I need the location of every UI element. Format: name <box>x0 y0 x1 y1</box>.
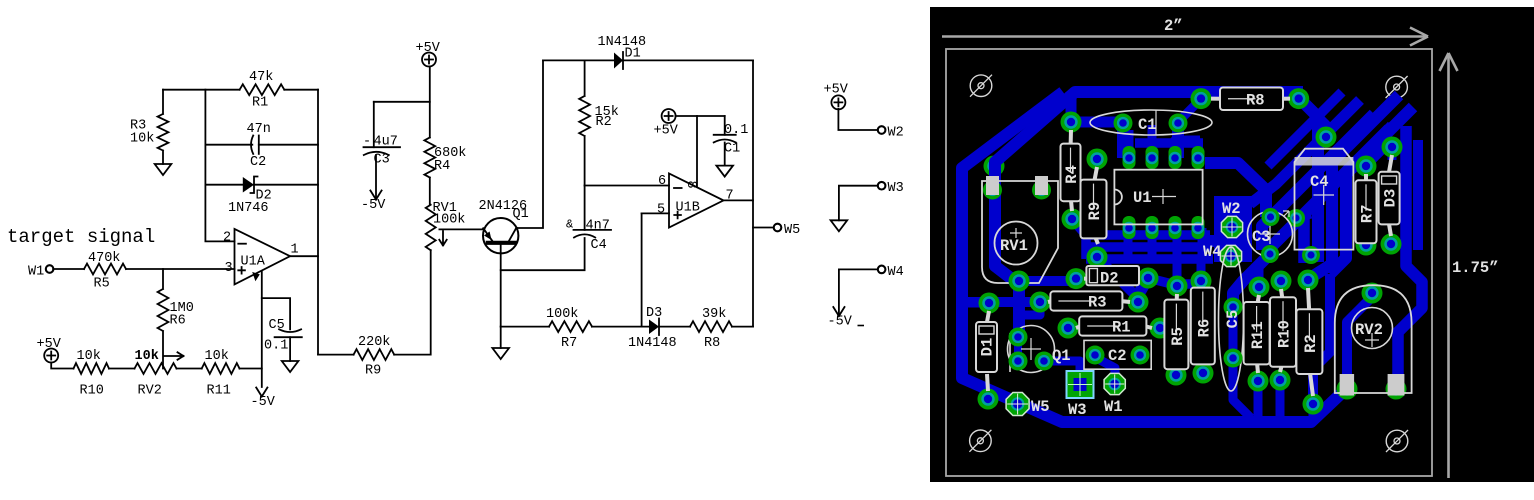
pad R9 top <box>1087 149 1108 170</box>
wire +5V to R10 <box>51 363 73 369</box>
trace R3 left to edge <box>962 297 1040 307</box>
ground below W3 <box>831 220 848 231</box>
IC U1 body outline <box>1114 170 1202 225</box>
svg-text:W1: W1 <box>28 265 44 280</box>
trace W3 up <box>1044 361 1080 386</box>
pad R3 right <box>1128 292 1149 313</box>
pad C1 left <box>1114 114 1133 133</box>
svg-text:target signal: target signal <box>7 226 155 248</box>
svg-text:10k: 10k <box>130 132 154 147</box>
pad RV1 right <box>1032 181 1051 200</box>
vertical dimension line 1.75 inch <box>1440 53 1499 478</box>
pad Q1 b <box>1009 352 1028 371</box>
svg-text:R4: R4 <box>434 159 450 174</box>
capacitor C2 47n <box>251 136 259 154</box>
trace diag under C4 strip2 <box>1310 95 1399 278</box>
wire R5 to pin3 <box>126 268 235 270</box>
pad C2 right <box>1131 346 1150 365</box>
trace R4 bottom to serpentine <box>1071 218 1086 235</box>
terminal W1 <box>28 265 53 280</box>
resistor R7 100k <box>549 321 592 332</box>
trace R11 bottom stub <box>1254 381 1263 418</box>
RV2 wiper arrow <box>164 352 184 359</box>
terminal pad W2 <box>1221 216 1242 237</box>
wire R1 top net <box>163 89 240 91</box>
svg-text:D2: D2 <box>1100 270 1119 288</box>
wire D1 to right bus <box>623 59 753 61</box>
trace C4 pads link <box>1296 214 1311 218</box>
+5V supply top <box>416 41 441 67</box>
pad D2 right <box>1138 268 1159 289</box>
pad R1 right <box>1150 318 1171 339</box>
svg-text:39k: 39k <box>702 307 726 322</box>
trace D2 right to R6 top <box>1148 278 1201 284</box>
resistor R11 10k <box>202 363 240 374</box>
wire Q1 emitter up <box>517 60 544 228</box>
PCB black background panel <box>930 7 1534 482</box>
board outline <box>946 49 1432 476</box>
wire W1 to R5 <box>53 268 84 270</box>
trace left of RV2 strip <box>1313 274 1330 404</box>
svg-text:R3: R3 <box>1088 294 1107 312</box>
resistor R7 body <box>1356 174 1377 243</box>
-5V arrow below W4 <box>833 307 844 316</box>
svg-text:D1: D1 <box>625 47 641 62</box>
potentiometer RV1 100k <box>426 205 436 251</box>
trace C5 bottom to band <box>1233 358 1251 418</box>
pad R11 bottom <box>1248 371 1269 392</box>
wire top net to D1 <box>543 59 614 61</box>
wire C3 branch <box>374 101 430 103</box>
op-amp U1B <box>657 174 734 228</box>
svg-text:+5V: +5V <box>37 337 62 352</box>
wire Q1 base stem <box>500 245 502 327</box>
op-amp U1A <box>223 229 299 285</box>
trace W1 up <box>1100 360 1115 384</box>
pad RV2 right <box>1386 379 1407 400</box>
svg-text:10k: 10k <box>205 349 229 364</box>
svg-text:R1: R1 <box>1112 319 1131 337</box>
wire U1B output pin7 <box>724 199 754 201</box>
svg-text:10k: 10k <box>135 349 159 364</box>
svg-text:2: 2 <box>223 231 231 246</box>
wire U1B pin5 <box>642 212 669 214</box>
terminal pad W3 <box>1067 371 1094 398</box>
trace RV1 pad down to Q1 <box>1013 283 1025 337</box>
mounting hole bottom-left <box>969 430 991 452</box>
pad C1 right <box>1169 114 1188 133</box>
mounting hole bottom-right <box>1386 430 1408 452</box>
wire right output bus <box>752 60 754 326</box>
resistor R4 body <box>1061 130 1082 211</box>
+5V supply bottom-left <box>37 337 62 363</box>
pad D2 left <box>1066 268 1087 289</box>
trace Q1 pads link <box>1014 337 1022 361</box>
U1A V- power pin arrow <box>252 272 260 281</box>
resistor R8 39k <box>690 321 732 332</box>
svg-text:C5: C5 <box>269 318 285 333</box>
pad R2 top <box>1298 270 1319 291</box>
wire U1A V- bus <box>261 271 263 387</box>
resistor R8 body <box>1211 88 1290 111</box>
trace R7 top stub <box>1366 144 1388 166</box>
trace diag to W4 region <box>1270 129 1389 248</box>
RV2 square pad left <box>1340 374 1355 396</box>
svg-text:Q1: Q1 <box>1052 347 1071 365</box>
ground at R7 node <box>492 348 509 359</box>
wire pin6 net <box>585 185 669 187</box>
svg-text:R6: R6 <box>170 314 186 329</box>
pad R6 top <box>1191 271 1212 292</box>
via C4 left <box>1287 209 1305 227</box>
resistor R6 1M0 <box>158 269 169 369</box>
wire R1 right lead <box>284 89 318 91</box>
trimmer RV2 body <box>1335 285 1412 393</box>
svg-text:+5V: +5V <box>416 41 441 56</box>
wire left bus to pin2 <box>205 90 234 242</box>
svg-text:R8: R8 <box>704 336 720 351</box>
wire right feedback bus <box>317 90 319 355</box>
svg-text:100k: 100k <box>546 307 578 322</box>
svg-text:D3: D3 <box>646 306 662 321</box>
pad R10 top <box>1271 271 1292 292</box>
wire U1B pin8 stem <box>696 116 698 187</box>
svg-text:R9: R9 <box>1086 202 1104 221</box>
trimmer RV1 body <box>982 181 1058 283</box>
ground below C5 <box>282 361 299 372</box>
svg-text:R2: R2 <box>596 115 612 130</box>
svg-text:1.75”: 1.75” <box>1452 259 1499 277</box>
trace C4 strip4 <box>1304 126 1392 263</box>
wire D2 right lead <box>254 184 318 186</box>
pad R11 top <box>1249 277 1270 298</box>
trace diag 6 <box>1268 92 1342 166</box>
pad R8 right <box>1288 88 1309 109</box>
pad RV1 wiper <box>1009 271 1030 292</box>
trace U1 right band to W2 <box>1205 163 1266 217</box>
svg-text:RV1: RV1 <box>1000 237 1028 255</box>
wire bus to R9 <box>318 354 354 356</box>
svg-text:W2: W2 <box>1222 200 1241 218</box>
svg-text:D1: D1 <box>979 338 997 357</box>
pad RV1 left <box>983 181 1002 200</box>
zener diode D2 1N746 <box>243 177 258 194</box>
svg-text:-: - <box>363 135 371 150</box>
wire W3 to ground <box>839 186 877 221</box>
wire C3 to -5V <box>375 155 377 200</box>
svg-text:R10: R10 <box>1276 320 1294 348</box>
trace right edge vertical <box>1398 126 1422 389</box>
pad R1 left <box>1058 318 1079 339</box>
mounting hole top-right <box>1386 76 1408 98</box>
trace R10 bottom stub <box>1276 381 1285 418</box>
horizontal dimension line 2 inch <box>942 17 1428 46</box>
pad D1 top <box>979 293 1000 314</box>
svg-text:C2: C2 <box>250 155 266 170</box>
wire to W5 <box>753 227 774 229</box>
wire R10 to RV2 <box>109 368 135 370</box>
resistor R9 220k <box>354 349 395 360</box>
svg-text:R7: R7 <box>1359 204 1377 223</box>
svg-text:R6: R6 <box>1195 319 1213 338</box>
svg-text:2”: 2” <box>1164 17 1183 35</box>
svg-text:+5V: +5V <box>824 83 849 98</box>
svg-text:R4: R4 <box>1063 165 1081 184</box>
svg-text:+5V: +5V <box>654 124 679 139</box>
trace U1 pads stubs down <box>1128 228 1202 260</box>
ground below C1 <box>716 166 733 177</box>
svg-text:RV2: RV2 <box>1355 321 1383 339</box>
trace diag under C4 strip3 <box>1330 107 1413 274</box>
trace Q1 links <box>1018 303 1040 337</box>
trace U1 serpentine row1 <box>1086 230 1210 240</box>
stray mark near -5V <box>858 325 865 327</box>
capacitor C3 outline <box>1248 211 1293 257</box>
pad R10 bottom <box>1270 370 1291 391</box>
svg-text:U1B: U1B <box>676 201 700 216</box>
pad R6 bottom <box>1193 363 1214 384</box>
svg-text:R5: R5 <box>1169 327 1187 346</box>
trace U1 top stubs <box>1129 125 1200 155</box>
trace C1 left stub <box>1117 123 1129 158</box>
pad RV2 left <box>1337 379 1358 400</box>
trace W2 W4 column <box>1226 227 1238 256</box>
resistor R4 680k <box>424 138 435 178</box>
wire C1 to ground <box>724 143 726 166</box>
resistor R2 15k <box>579 60 590 185</box>
trace C5 pads strip <box>1229 307 1238 358</box>
pad D3 bottom <box>1381 234 1402 255</box>
wire RV1 wiper to Q1 <box>439 228 483 230</box>
diode D3 body <box>1379 155 1400 236</box>
wire R4 to RV1 <box>429 178 431 205</box>
terminal pad W1 <box>1104 373 1125 394</box>
schematic panel <box>0 0 930 500</box>
capacitor C5 outline <box>1219 247 1244 391</box>
copper pour near W2 W4 <box>1214 196 1252 262</box>
svg-text:R10: R10 <box>80 384 104 399</box>
terminal W5 <box>774 223 801 238</box>
svg-text:W3: W3 <box>1068 401 1087 419</box>
svg-text:5: 5 <box>657 203 665 218</box>
pad R5 top <box>1167 276 1188 297</box>
svg-text:1N746: 1N746 <box>228 201 269 216</box>
capacitor C3 4u7 <box>364 147 401 155</box>
resistor R11 body <box>1244 295 1270 373</box>
wire C5 branch <box>262 298 290 329</box>
-5V arrow below U1A <box>256 388 267 397</box>
trace R9 bottom to R3 right <box>1097 257 1138 298</box>
trace C3 to C5 <box>1233 254 1270 307</box>
pad C5 top <box>1224 298 1243 317</box>
resistor R10 10k <box>74 363 110 374</box>
ground below R3 <box>155 164 172 175</box>
IC U1 pads top row <box>1123 146 1136 169</box>
pad R7 top <box>1356 156 1377 177</box>
terminal W4 <box>878 265 904 280</box>
svg-text:U1A: U1A <box>241 255 266 270</box>
svg-text:-5V: -5V <box>828 315 853 330</box>
svg-text:220k: 220k <box>358 335 390 350</box>
pad R4 bottom <box>1062 209 1083 230</box>
pad R7 bottom <box>1356 235 1377 256</box>
trace R8 right under C4 strip1 <box>1299 98 1318 262</box>
RV2 square pad right <box>1388 374 1405 396</box>
pad RV2 top <box>1362 283 1383 304</box>
svg-text:R11: R11 <box>207 384 231 399</box>
trace C1 right stub <box>1172 123 1184 158</box>
pad C4 top <box>1316 127 1337 148</box>
wire C5 to ground <box>289 337 291 361</box>
svg-text:W2: W2 <box>888 126 904 141</box>
trace diag 5 <box>1250 100 1360 204</box>
trace outer left-bottom ring <box>962 92 1348 422</box>
wire +5V to W2 <box>838 109 877 130</box>
pad Q1 e <box>1009 328 1028 347</box>
wire C2 right lead <box>259 144 318 146</box>
svg-text:&: & <box>566 218 573 232</box>
wire C3 stem <box>373 102 375 147</box>
mounting hole top-left <box>970 75 992 97</box>
svg-text:C5: C5 <box>1224 310 1242 329</box>
trace U1 serpentine row2 <box>1086 242 1210 252</box>
potentiometer RV2 10k <box>135 363 177 374</box>
svg-text:-5V: -5V <box>251 395 276 410</box>
trace R5 R6 top stubs <box>1177 262 1201 286</box>
pad D1 bottom <box>978 389 999 410</box>
trace serpentine left link <box>1081 235 1091 259</box>
wire R7 to D3 node <box>592 326 649 328</box>
terminal W2 <box>878 126 904 141</box>
svg-text:R11: R11 <box>1249 321 1267 349</box>
pad R4 top <box>1061 112 1082 133</box>
resistor R2 body <box>1296 288 1322 396</box>
capacitor C4 body <box>1295 149 1354 250</box>
wire Q1 to C4 bottom <box>501 238 585 270</box>
trace R2 bottom stub <box>1309 404 1318 420</box>
pad Q1 c <box>1035 352 1054 371</box>
wire C2 left lead <box>205 144 252 146</box>
resistor R5 470k <box>84 264 126 275</box>
wire W4 to -5V <box>839 269 877 316</box>
svg-text:W1: W1 <box>1104 398 1123 416</box>
wire R8 to bus <box>732 326 753 328</box>
svg-text:0.1: 0.1 <box>264 339 288 354</box>
trace D2 right to R3 right <box>1138 278 1148 295</box>
svg-text:Q1: Q1 <box>513 207 529 222</box>
wire pin5 down <box>641 213 643 326</box>
trace R4 top to C1 left <box>1071 117 1123 128</box>
wire +5V to C1 <box>676 115 725 117</box>
transistor Q1 2N4126 <box>483 218 518 253</box>
svg-text:W4: W4 <box>1203 243 1222 261</box>
RV1 square pad left <box>986 176 999 195</box>
svg-text:1N4148: 1N4148 <box>628 336 677 351</box>
wire C1 stem <box>724 116 726 135</box>
resistor R1 47k <box>240 84 285 95</box>
resistor R9 body <box>1081 167 1107 244</box>
svg-text:C3: C3 <box>1252 228 1271 246</box>
svg-text:C1: C1 <box>1138 116 1157 134</box>
capacitor C1 0.1 <box>714 135 736 143</box>
trace diag to C3 region <box>1262 114 1374 250</box>
svg-text:W3: W3 <box>888 181 904 196</box>
resistor R5 body <box>1164 294 1188 369</box>
transistor Q1 outline <box>1008 326 1055 373</box>
trace serpentine right link <box>1205 235 1215 247</box>
trace R8 left to C1 <box>1181 99 1201 119</box>
trace U1 serpentine row3 <box>1086 254 1213 264</box>
svg-text:-5V: -5V <box>361 198 386 213</box>
svg-text:C4: C4 <box>1310 173 1329 191</box>
svg-text:C4: C4 <box>591 238 607 253</box>
wire RV2 to R11 <box>177 368 202 370</box>
diode D2 body <box>1084 266 1140 288</box>
+5V supply right column <box>824 83 849 110</box>
svg-text:C2: C2 <box>1108 347 1127 365</box>
terminal pad W4 <box>1220 245 1241 266</box>
svg-text:U1: U1 <box>1133 189 1152 207</box>
resistor R1 body <box>1076 316 1152 336</box>
terminal W3 <box>878 181 904 196</box>
svg-text:1: 1 <box>291 243 299 258</box>
svg-text:47n: 47n <box>247 122 271 137</box>
pad R8 left <box>1191 88 1212 109</box>
trace D1 top link <box>967 299 989 308</box>
diode D1 1N4148 <box>614 52 623 69</box>
pad D3 top <box>1382 137 1403 158</box>
via top-left corner <box>984 156 1005 177</box>
trace C1 underband <box>1135 138 1203 148</box>
svg-text:R5: R5 <box>94 277 110 292</box>
resistor R3 body <box>1048 291 1130 311</box>
wire R11 to -5V bus <box>240 368 262 370</box>
-5V arrow below C3 <box>370 191 381 200</box>
resistor R10 body <box>1270 289 1296 372</box>
wire U1A output pin1 <box>290 255 318 257</box>
trace R8 to C4 pad <box>1309 108 1326 137</box>
wire ground stem <box>500 327 502 348</box>
capacitor C1 outline <box>1090 110 1212 135</box>
wire Q1 base to R7 <box>501 326 549 328</box>
svg-text:C1: C1 <box>724 142 740 157</box>
svg-text:47k: 47k <box>249 70 273 85</box>
svg-text:R1: R1 <box>252 96 268 111</box>
pad C5 bottom <box>1224 349 1243 368</box>
svg-text:W5: W5 <box>784 223 800 238</box>
svg-text:R2: R2 <box>1302 334 1320 353</box>
pad R3 left <box>1030 292 1051 313</box>
trace inside RV2 <box>1347 295 1374 389</box>
pad C3 bottom <box>1261 245 1279 263</box>
pad C3 top <box>1262 208 1280 226</box>
svg-text:D3: D3 <box>1382 189 1400 208</box>
svg-text:8: 8 <box>683 181 698 189</box>
svg-text:W4: W4 <box>888 265 904 280</box>
pad R5 bottom <box>1166 365 1187 386</box>
terminal pad W5 <box>1006 393 1029 416</box>
trace R11 top stub <box>1255 262 1264 287</box>
diode D3 1N4148 <box>649 319 659 336</box>
svg-text:470k: 470k <box>88 251 120 266</box>
svg-text:6: 6 <box>658 174 666 189</box>
trace RV1 wiper to D2 left <box>1019 276 1076 286</box>
svg-text:W5: W5 <box>1031 398 1050 416</box>
capacitor C4 4n7 <box>574 186 612 238</box>
pad R2 bottom <box>1303 394 1324 415</box>
wire D3 to R8 <box>659 326 690 328</box>
RV1 wiper arrow <box>439 231 446 246</box>
